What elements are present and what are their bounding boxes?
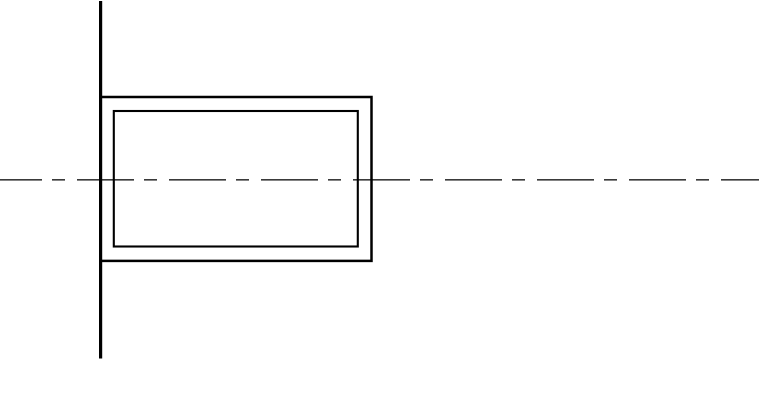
wire vertical [99, 1, 102, 359]
component outline inner rectangle [114, 111, 358, 247]
component outline outer rectangle [101, 97, 372, 261]
centerline axis (dash-dot horizontal net) [0, 179, 759, 181]
